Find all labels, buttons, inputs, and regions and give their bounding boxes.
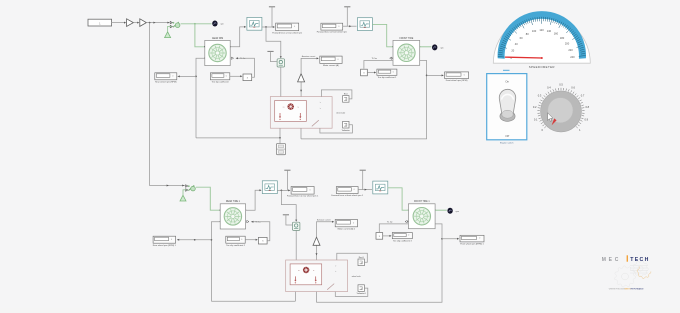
ideal source block SRC2 (293, 222, 300, 230)
logo gear sketch (light gray) (615, 261, 649, 287)
green wire FRONT TIRE 1 right port to viewer badge V3 (435, 209, 447, 211)
svg-text:Voltmeter1: Voltmeter1 (357, 292, 366, 295)
green wire FRONT TIRE right port to viewer badge V2 (420, 46, 432, 48)
wire gain GU1 to display D-B with label (301, 55, 319, 73)
current sensor glyph left M2 (294, 276, 296, 283)
display block Motor current (A) (320, 56, 342, 67)
connection port block P3 (358, 256, 364, 266)
viewer badge (black oval scope marker) V2 (432, 44, 444, 50)
Simscape block REAR TIRE 1 (square with green gear/tire icon) (219, 200, 246, 229)
svg-text:0.9: 0.9 (584, 118, 588, 122)
ground tap T-bar 5 (283, 214, 289, 217)
svg-text:Voltmeter: Voltmeter (342, 129, 350, 132)
wire bracket to port P1 (321, 90, 352, 99)
display block Tire slip coefficient 2 (226, 236, 246, 247)
svg-text:100: 100 (532, 29, 537, 33)
wire FRONT TIRE 1 lower-left port to block SQA2 (379, 224, 408, 232)
solver/reference port (green triangle) T2 (180, 195, 186, 201)
wire tap to display D-FW (427, 74, 444, 76)
svg-text:240: 240 (570, 55, 575, 59)
ground tap T-bar 6 (360, 170, 366, 189)
motor icon (red rotor) M2 (298, 267, 315, 273)
wire source SRC1 down to motor box (280, 67, 282, 97)
display block Forward force at front wheel rpm (317, 23, 347, 34)
electrical rail A (196, 137, 281, 139)
electrical rail D to FRONT TIRE 1 (316, 224, 442, 302)
wire sensor S3 to display D-A1 with node (277, 189, 290, 191)
svg-text:GEAR RIM: GEAR RIM (212, 37, 223, 40)
wire tap to display D1b (177, 239, 211, 241)
small gain/terminator block SQB (243, 74, 252, 81)
svg-text:FRONT TIRE 1: FRONT TIRE 1 (414, 201, 430, 203)
knob dial body (541, 91, 582, 132)
wire display D2Lb to small block SQB2 (245, 239, 258, 241)
wire motor box bottom-right to rail B (300, 128, 302, 139)
logo wordmark MEC TECH (602, 255, 650, 263)
svg-text:Rect: Rect (344, 92, 348, 95)
toggle switch panel (blue border) (487, 70, 527, 139)
wire GEAR RIM right port to sensor S1 (230, 26, 246, 47)
wire sensor S4 down to FRONT TIRE 1 upper port (388, 188, 408, 210)
svg-text:Tire slip coefficient: Tire slip coefficient (212, 80, 230, 83)
toggle switch lever (499, 89, 515, 121)
Simscape block FRONT TIRE (square with green gear/tire icon) (392, 38, 420, 66)
svg-text:0.1: 0.1 (534, 118, 538, 122)
wire bracket to port P4 (335, 288, 368, 296)
subsystem inner port marks M1 (320, 101, 346, 114)
breaker slash glyph M2 (327, 284, 334, 290)
svg-text:wheel axle: wheel axle (336, 112, 345, 114)
solver/reference port (green triangle) T1 (165, 32, 171, 38)
gain block G2 (triangle) (140, 19, 147, 27)
ground tap T-bar 3 (344, 7, 350, 26)
current sensor glyph left M1 (279, 113, 281, 120)
svg-text:rpm: rpm (220, 23, 224, 26)
svg-text:rpm: rpm (456, 210, 460, 213)
svg-text:0.7: 0.7 (581, 94, 585, 98)
wire constant to gain1 (112, 22, 127, 24)
DC motor subsystem box M2 (286, 260, 348, 292)
svg-text:Rear wheel rpm (RPM) 1: Rear wheel rpm (RPM) 1 (153, 244, 177, 247)
svg-text:FRONT TIRE: FRONT TIRE (400, 38, 414, 40)
wire REAR TIRE 1 right port to sensor S3 (246, 189, 262, 210)
svg-text:Motor current (A) 1: Motor current (A) 1 (338, 227, 356, 230)
small gain/terminator block SQA2 (376, 233, 383, 240)
knob scale numerals (533, 83, 590, 132)
mouse cursor over knob (548, 113, 553, 122)
logo tagline (609, 288, 645, 291)
wire node down to torque source (266, 27, 282, 58)
green output wire of SW1 (181, 23, 212, 25)
sensor block (teal) S1 (247, 17, 262, 30)
connection port block P4 (357, 285, 366, 295)
green connection wire triangle to switch SW2 (183, 190, 187, 195)
wire display D2b to sensor S4 (358, 189, 372, 191)
speedometer tick marks (498, 17, 586, 57)
display block Rear wheel rpm (RPM) 1 (153, 236, 177, 247)
svg-text:Rear wheel rpm (RPM): Rear wheel rpm (RPM) (155, 80, 177, 83)
display block Forward force at rear wheel rpm 1 (287, 187, 319, 198)
wire gain2 to manual switch with branch node (146, 22, 169, 24)
Simscape block GEAR RIM (square with green gear/tire icon) (204, 37, 231, 66)
svg-text:0.6: 0.6 (571, 86, 575, 90)
subsystem inner port marks M2 (335, 265, 361, 278)
constant block Input Torque (88, 19, 112, 26)
feedback wire to lower circuit (150, 23, 185, 187)
wire motor box bottom-left to rail A (279, 128, 281, 138)
ground tap T-bar 4 (284, 170, 290, 190)
svg-text:On: On (505, 80, 509, 84)
svg-text:TL 1w: TL 1w (387, 222, 393, 224)
display block Forward force at rear wheel rpm (272, 23, 302, 34)
wire tap to display D1 (178, 75, 196, 77)
svg-text:a+: a+ (283, 106, 285, 108)
svg-text:Engine switch: Engine switch (500, 142, 514, 145)
connection port block P1 (343, 92, 349, 102)
sensor block (teal) S4 (373, 181, 388, 194)
svg-text:SPEEDOMETER: SPEEDOMETER (529, 65, 555, 69)
svg-text:Front wheel rpm (RPM): Front wheel rpm (RPM) (446, 79, 468, 82)
viewer badge (black oval scope marker) V1 (212, 21, 224, 27)
svg-text:120: 120 (539, 28, 544, 32)
svg-text:0.8: 0.8 (585, 105, 589, 109)
sensor block (teal) S3 (262, 181, 277, 194)
wire gain GU2 down into motor box M2 (316, 245, 318, 260)
wire motor box M2 bottom-left to rail C (294, 292, 296, 302)
ground tap T-bar 2 (267, 50, 273, 53)
svg-text:Forward force at rear wheel rp: Forward force at rear wheel rpm (272, 31, 302, 34)
viewer badge (black oval scope marker) V3 (447, 208, 459, 214)
breaker slash glyph M1 (312, 120, 319, 126)
wire rail A to battery (279, 138, 281, 144)
svg-text:WHERE PRECISION: WHERE PRECISION (609, 289, 626, 291)
wire gain GU2 to display D-B1 with label (317, 219, 335, 238)
speedometer numerals (510, 28, 575, 60)
port label TL 1w of GEAR RIM (231, 57, 246, 60)
svg-text:Tire slip coefficient 1: Tire slip coefficient 1 (377, 76, 397, 79)
svg-text:Armature current: Armature current (317, 219, 331, 222)
svg-text:Off: Off (505, 134, 509, 138)
svg-text:Rect1: Rect1 (359, 256, 364, 259)
speedometer gauge face (493, 15, 590, 64)
svg-text:180: 180 (560, 36, 565, 40)
wire small block SQB up to GEAR RIM port TL (236, 57, 255, 77)
wire node down to torque source SRC2 (281, 190, 297, 221)
ground tap T-bar 1 (269, 7, 275, 27)
manual switch (Simscape, green) SW2 (186, 185, 196, 191)
wire gain1 to gain2 (133, 22, 139, 24)
wire small block SQB2 up to REAR TIRE 1 port TL (251, 221, 270, 241)
svg-text:Forward force at rear wheel rp: Forward force at rear wheel rpm 1 (287, 195, 319, 198)
wire T-bar 2 elbow to source SRC1 (271, 52, 277, 61)
svg-text:PERFORMANCE: PERFORMANCE (630, 288, 644, 291)
wire T-bar 5 elbow to source SRC2 (286, 216, 292, 225)
svg-text:a+: a+ (298, 270, 300, 272)
manual switch (Simscape, green) SW1 (170, 21, 180, 27)
gain block G1 (triangle) (127, 19, 134, 27)
svg-text:Front wheel rpm (RPM) 1: Front wheel rpm (RPM) 1 (460, 243, 484, 246)
DC motor subsystem box M1 (270, 97, 332, 129)
svg-text:0.2: 0.2 (533, 105, 537, 109)
svg-text:0.5: 0.5 (559, 83, 563, 87)
svg-text:Forward force at front wheel r: Forward force at front wheel rpm 1 (331, 194, 364, 197)
knob red pointer (552, 118, 557, 125)
speedometer needle (red, at zero) (505, 57, 543, 59)
svg-text:REAR TIRE 1: REAR TIRE 1 (226, 200, 241, 203)
wire bracket to port P2 (320, 125, 353, 133)
svg-text:Armature current: Armature current (302, 55, 316, 58)
motor icon (red rotor) M1 (283, 103, 300, 109)
svg-text:Tire slip coefficient 3: Tire slip coefficient 3 (393, 239, 413, 242)
battery block B1 (276, 144, 285, 155)
svg-text:MEC: MEC (602, 257, 621, 263)
svg-text:160: 160 (554, 32, 559, 36)
small gain/terminator block SQA (361, 69, 368, 76)
wire bracket to port P3 (337, 253, 368, 262)
wire rail C up to REAR TIRE 1 left port (211, 222, 221, 302)
display block Front wheel rpm (RPM) (445, 72, 469, 82)
svg-text:Forward force at front wheel r: Forward force at front wheel rpm (317, 31, 347, 34)
svg-text:200: 200 (565, 41, 570, 45)
wire sensor S2 down to FRONT TIRE upper port (372, 24, 392, 46)
gain block GU1 (upward triangle) (298, 74, 305, 82)
gain block GU2 (upward triangle) (313, 237, 320, 245)
port label TL 1w of FRONT TIRE (372, 57, 392, 60)
wire display D2 to sensor S2 (343, 25, 357, 27)
green connection wire triangle to switch SW1 (168, 26, 172, 31)
wire block SQA to display D-TS (367, 72, 376, 74)
electrical rail C (211, 300, 295, 302)
svg-text:TECH: TECH (630, 257, 649, 263)
speedometer blue arc band (498, 11, 586, 59)
wire block SQA2 to display D-TS2 (383, 235, 392, 237)
port label TL 1w of FRONT TIRE 1 (387, 220, 407, 223)
knob tick marks (537, 88, 584, 128)
connection port block P2 (342, 121, 350, 131)
svg-text:Tire slip coefficient 2: Tire slip coefficient 2 (226, 244, 246, 247)
current sensor glyph right M1 (299, 113, 301, 120)
svg-text:140: 140 (547, 29, 552, 33)
svg-text:0.3: 0.3 (538, 94, 542, 98)
wire source SRC2 down to motor box M2 (295, 230, 297, 260)
small gain/terminator block SQB2 (258, 237, 267, 244)
display block Forward force at front wheel rpm 1 (331, 187, 364, 198)
wire FRONT TIRE lower-left port to block SQA (364, 61, 393, 69)
wire rail A up to GEAR RIM left port (195, 58, 205, 138)
logo gear sketch (orange partial) (637, 267, 651, 279)
sensor block (teal) S2 (357, 18, 372, 31)
svg-text:wheel axle: wheel axle (352, 276, 361, 278)
display block Tire slip coefficient 1 (377, 69, 397, 79)
display block Tire slip coefficient 3 (392, 233, 412, 243)
Simscape block FRONT TIRE 1 (square with green gear/tire icon) (408, 201, 436, 229)
display block Front wheel rpm (RPM) 1 (460, 235, 485, 245)
electrical rail B to FRONT TIRE (301, 61, 427, 139)
svg-text:Motor current (A): Motor current (A) (323, 64, 339, 67)
svg-text:TL 1w: TL 1w (372, 58, 378, 60)
wire tap to display D-FW1 (442, 238, 459, 240)
display block Motor current (A) 1 (335, 220, 357, 231)
port label TL 1w of REAR TIRE 1 (247, 220, 262, 223)
green wire branch down to GEAR RIM (195, 24, 205, 47)
svg-text:0.4: 0.4 (547, 86, 551, 90)
wire display D2L to small block SQB (230, 75, 243, 77)
ideal source block SRC1 (277, 59, 284, 67)
wire motor box M2 bottom-right to rail D (315, 292, 317, 303)
current sensor glyph right M2 (315, 276, 317, 283)
display block Rear wheel rpm (RPM) (155, 73, 177, 84)
wire gain-up GU1 down into motor box (300, 82, 302, 97)
svg-text:220: 220 (568, 48, 573, 52)
green output wire of SW2 (196, 187, 220, 210)
svg-text:rpm: rpm (440, 46, 444, 49)
display block Tire slip coefficient (210, 73, 229, 84)
wire sensor S1 to display D-A with node (262, 26, 275, 28)
